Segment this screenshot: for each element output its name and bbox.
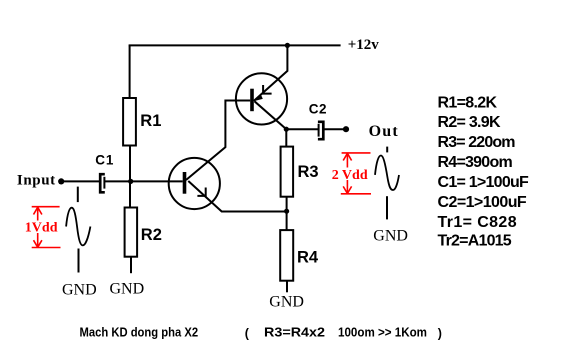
svg-text:R2= 3.9K: R2= 3.9K: [438, 114, 501, 131]
wire Q2 collector to C2 node: [255, 101, 287, 129]
resistor R1: [123, 98, 136, 146]
right source line below sine: [386, 196, 388, 219]
node A dot: [128, 179, 133, 184]
svg-text:R1=8.2K: R1=8.2K: [438, 94, 498, 111]
wire R2 to GND: [130, 257, 132, 274]
red measure arrow 2Vdd bottom line: [341, 193, 371, 195]
red measure arrow 2Vdd top line: [342, 152, 371, 154]
node dot R3/R4: [284, 209, 289, 214]
svg-text:R2: R2: [141, 226, 162, 244]
red measure arrow 2Vdd arrowheads: [343, 153, 351, 193]
right sine wave: [375, 155, 399, 190]
svg-text:R1: R1: [140, 112, 161, 130]
wire Q1 emitter to R3/R4 node: [188, 181, 286, 212]
transistor Q1 base bar: [183, 172, 187, 194]
svg-text:R3: R3: [298, 163, 319, 181]
svg-text:Input: Input: [17, 172, 56, 188]
svg-text:Tr1= C828: Tr1= C828: [438, 214, 517, 231]
resistor R2: [125, 208, 138, 257]
wire left vertical to R1: [129, 45, 131, 98]
wire Input to C1: [61, 180, 100, 182]
svg-text:Tr2=A1015: Tr2=A1015: [438, 233, 512, 250]
svg-text:C2=1>100uF: C2=1>100uF: [438, 194, 527, 211]
Q2 emitter arrow barbs: [263, 85, 272, 95]
capacitor C2 bracket plate: [318, 122, 323, 139]
wire +12v top rail: [129, 44, 341, 46]
resistor R3: [281, 147, 294, 197]
svg-text:GND: GND: [269, 294, 304, 311]
svg-text:+12v: +12v: [348, 37, 380, 53]
svg-text:2 Vdd: 2 Vdd: [332, 168, 368, 183]
input terminal dot: [58, 178, 64, 184]
wire R1 to node A and R2: [129, 146, 131, 208]
wire R4 to GND: [286, 281, 288, 293]
wire C2 to Out: [323, 128, 346, 130]
left source dash above sine: [77, 187, 79, 203]
red measure arrow 1Vdd top line: [32, 206, 60, 208]
svg-text:1Vdd: 1Vdd: [25, 221, 58, 236]
Q2 emitter arrow tip: [255, 94, 263, 101]
svg-text:R4: R4: [297, 248, 319, 266]
wire C1 to Q1 base: [104, 180, 182, 182]
svg-text:GND: GND: [62, 282, 97, 299]
svg-text:Out: Out: [369, 123, 399, 140]
out terminal dot: [343, 126, 349, 132]
node dot C2: [284, 127, 289, 132]
red measure arrow 1Vdd arrowheads: [34, 207, 42, 247]
label 1Vdd background: [25, 221, 59, 234]
wire C2 node to R3: [285, 129, 287, 146]
svg-text:R3= 220om: R3= 220om: [438, 134, 516, 151]
transistor Q2 base bar: [250, 89, 254, 112]
wire R3 to R4: [286, 197, 288, 230]
transistor Q2 circle: [236, 73, 287, 124]
red measure arrow 1Vdd vertical: [37, 207, 39, 247]
svg-text:GND: GND: [110, 281, 145, 298]
capacitor C2 straight plate: [318, 124, 320, 137]
wire Q2 emitter to +12v rail: [254, 45, 288, 101]
resistor R4: [280, 230, 293, 281]
right source dash above sine: [386, 147, 388, 153]
Q1 emitter arrow barbs: [197, 188, 206, 197]
red measure arrow 2Vdd vertical: [346, 153, 348, 193]
svg-text:Mach KD dong pha X2: Mach KD dong pha X2: [80, 326, 199, 340]
transistor Q1 circle: [169, 158, 220, 209]
wire C2 node to C2: [286, 128, 318, 130]
svg-text:R3=R4x2: R3=R4x2: [264, 326, 325, 340]
label 2 Vdd background: [331, 168, 369, 181]
wire Q1 collector to Q2 base: [186, 101, 250, 181]
red measure arrow 1Vdd bottom line: [32, 247, 61, 249]
svg-text:R4=390om: R4=390om: [438, 154, 513, 171]
node dot top rail: [285, 43, 290, 48]
left source line below sine: [78, 249, 80, 273]
svg-text:C1: C1: [95, 153, 114, 168]
capacitor C1 bracket plate: [100, 174, 105, 192]
svg-text:GND: GND: [373, 228, 408, 245]
left sine wave: [66, 208, 90, 246]
capacitor C1 straight plate: [103, 177, 105, 189]
svg-text:C2: C2: [309, 101, 327, 116]
svg-text:C1= 1>100uF: C1= 1>100uF: [438, 174, 530, 191]
svg-text:100om >> 1Kom: 100om >> 1Kom: [338, 326, 427, 340]
svg-text:): ): [438, 327, 442, 341]
